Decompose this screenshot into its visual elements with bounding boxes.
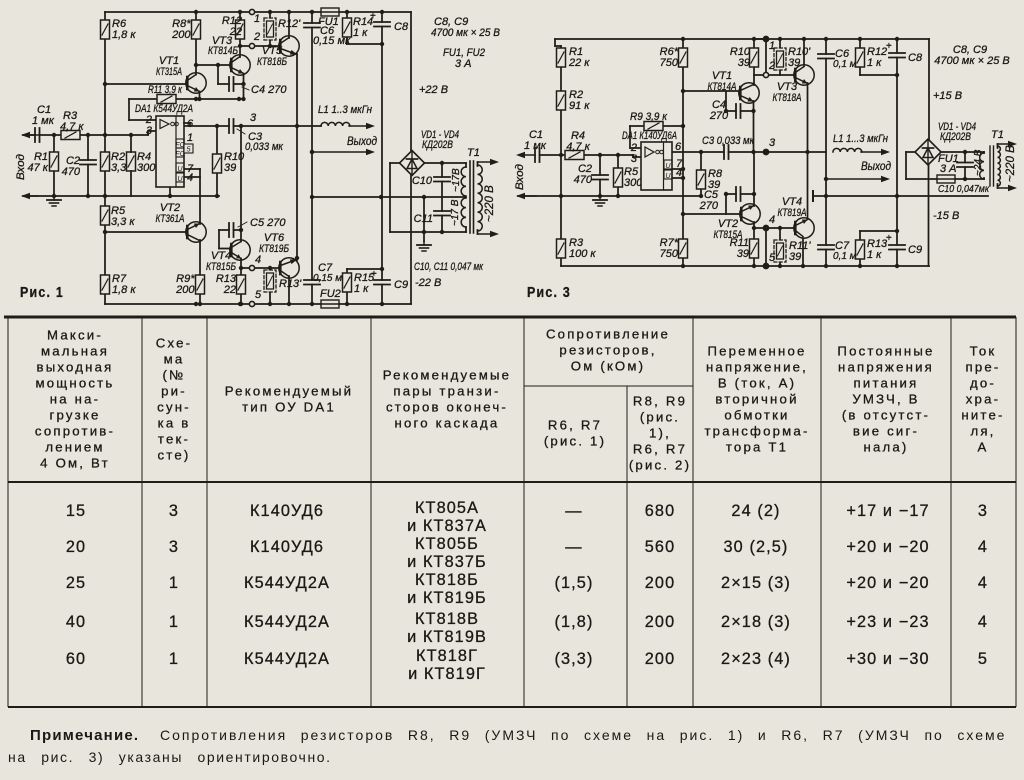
svg-text:4 Ом, Вт: 4 Ом, Вт [40, 456, 110, 471]
wire DA1 bottom stub (fig.1) [169, 187, 171, 196]
wire R11` top stub (fig.3) [779, 228, 781, 240]
junction [198, 302, 202, 306]
svg-text:4,7 к: 4,7 к [60, 121, 84, 133]
junction [801, 264, 805, 268]
wire bridge AC bottom (fig.1) [390, 231, 466, 233]
wire to C5 (fig.3) [726, 193, 736, 195]
svg-text:УМЗЧ, В: УМЗЧ, В [852, 392, 919, 407]
capacitor C4 270 (fig.3) [736, 104, 741, 118]
svg-text:ля,: ля, [970, 424, 995, 439]
svg-text:5: 5 [255, 289, 262, 301]
T1 secondary winding lower ~17V [461, 198, 466, 227]
transistor VT2 KT361A [186, 222, 206, 242]
wire bridge AC left (fig.1) [390, 162, 400, 164]
svg-text:сун-: сун- [157, 400, 191, 415]
T1 primary lead bottom (fig.3) [998, 185, 1018, 191]
junction [310, 195, 314, 199]
junction [699, 150, 703, 154]
wire rail to R12 (fig.3) [859, 39, 861, 48]
wire R13 to C9 column (fig.3) [860, 230, 897, 232]
bridge rectifier VD1-VD4 (fig.1) [400, 151, 425, 176]
input arrow bottom (fig.1) [21, 193, 38, 199]
svg-text:и КТ837Б: и КТ837Б [407, 553, 487, 571]
svg-text:трансформа-: трансформа- [704, 424, 809, 439]
wire DA1 output line (fig.3) [672, 151, 826, 153]
inductor L1 (fig.3) [833, 148, 862, 152]
svg-text:выходная: выходная [36, 360, 113, 375]
junction [681, 264, 685, 268]
svg-text:C9: C9 [394, 279, 408, 291]
wire C2 top (fig.3) [599, 155, 601, 175]
svg-text:+23 и −23: +23 и −23 [846, 613, 929, 631]
resistor R11 3.9k [157, 95, 176, 104]
junction [778, 226, 782, 230]
svg-text:47 к: 47 к [28, 162, 49, 174]
junction [422, 195, 426, 199]
wire VT2 emitter to R9* (fig.1) [199, 240, 201, 275]
wire VT1 emitter column (fig.3) [753, 101, 755, 152]
wire VT4 collector (fig.3) [802, 238, 804, 266]
wire [465, 163, 467, 167]
output arrow L1 (fig.1) [349, 123, 375, 129]
T1 core line2 (fig.3) [993, 146, 995, 186]
wire pin4-pin5 column (fig.3) [765, 228, 767, 266]
svg-text:-22 В: -22 В [415, 277, 441, 289]
svg-text:5: 5 [978, 650, 988, 668]
wire FU1 to secondary (fig.3) [955, 178, 984, 180]
svg-text:мощность: мощность [36, 376, 115, 391]
wire VT2 emitter to R11 (fig.3) [753, 222, 755, 239]
svg-text:20: 20 [66, 538, 86, 556]
wire bottom -22V rail (fig.1) [105, 303, 411, 305]
capacitor C10 0.047uF (fig.3) [957, 163, 973, 168]
junction [895, 264, 899, 268]
table vertical line 8 [950, 317, 952, 707]
wire R5 bottom (fig.3) [617, 187, 619, 196]
svg-text:пары транзи-: пары транзи- [393, 384, 500, 399]
svg-text:питания: питания [854, 376, 919, 391]
svg-text:напряжения: напряжения [838, 360, 934, 375]
svg-text:+22 В: +22 В [419, 84, 448, 96]
svg-text:~17 В: ~17 В [450, 199, 461, 226]
svg-text:1),: 1), [649, 426, 671, 441]
capacitor C1 1uF (fig.1) [35, 128, 40, 142]
resistor R13` (optional) [264, 270, 276, 292]
junction [103, 194, 107, 198]
resistor R13 22 [237, 275, 246, 294]
svg-text:C3 0,033 мк: C3 0,033 мк [702, 135, 755, 147]
wire VT1 base (fig.3) [683, 90, 740, 92]
junction [268, 10, 272, 14]
C4 pointer [242, 87, 249, 90]
wire C5 elbow (fig.1) [218, 230, 220, 249]
wire R11` bottom stub (fig.3) [779, 258, 781, 266]
junction [598, 153, 602, 157]
junction [380, 42, 384, 46]
wire AC drop (fig.3) [905, 152, 907, 179]
junction [238, 44, 242, 48]
capacitor C6 0.15uF [304, 23, 320, 28]
svg-text:+17 и −17: +17 и −17 [846, 502, 929, 520]
wire rail jog (fig.3) [554, 39, 556, 46]
wire DA1 pin4 stub (fig.1) [184, 176, 200, 178]
transformer T1 (fig.3) [980, 141, 1017, 191]
svg-text:4: 4 [978, 538, 988, 556]
junction [268, 44, 272, 48]
wire [477, 162, 479, 166]
wire C10/C11 column (fig.1) [441, 163, 443, 232]
svg-text:(рис.: (рис. [640, 410, 680, 425]
svg-text:К544УД2А: К544УД2А [244, 613, 330, 631]
wire [477, 230, 479, 234]
output arrow common (fig.1) [312, 149, 375, 155]
table header separator [8, 481, 1016, 483]
table vertical line 3 [370, 317, 372, 707]
wire C5 to VT2 (fig.3) [741, 193, 755, 195]
svg-text:Рис. 1: Рис. 1 [20, 284, 64, 301]
svg-text:3 А: 3 А [940, 163, 957, 175]
transistor VT2 KT815A (fig.3) [740, 204, 760, 224]
svg-text:—: — [565, 538, 582, 556]
svg-text:Рекомендуемый: Рекомендуемый [225, 384, 353, 399]
svg-text:R6, R7: R6, R7 [633, 442, 687, 457]
svg-text:напряжение,: напряжение, [706, 360, 808, 375]
svg-text:(1,5): (1,5) [555, 574, 594, 592]
T1 core line 2 [473, 161, 475, 233]
svg-text:~17В: ~17В [451, 168, 462, 192]
svg-text:1 к: 1 к [353, 27, 368, 39]
wire R15 branch (fig.1) [346, 269, 348, 304]
pin terminal 5 (fig.3) [763, 263, 768, 268]
junction [215, 124, 219, 128]
resistor R2 3.3k [101, 152, 110, 171]
junction [238, 10, 242, 14]
svg-text:обмотки: обмотки [724, 408, 789, 423]
wire VT6 base (fig.1) [241, 267, 280, 269]
wire C6/C7 bypass column (fig.1) [311, 12, 313, 304]
junction [379, 195, 383, 199]
capacitor C6 0.1uF (fig.3) [818, 54, 834, 59]
svg-text:470: 470 [62, 166, 81, 178]
wire rail to R10 (fig.3) [753, 39, 755, 48]
wire R10` bottom stub (fig.3) [779, 66, 781, 75]
T1 secondary winding ~24V (fig.3) [980, 153, 984, 179]
junction [824, 264, 828, 268]
wire R12` top stub (fig.1) [269, 12, 271, 18]
svg-text:C5 270: C5 270 [250, 217, 286, 229]
wire top +22V rail (fig.1) [105, 11, 411, 13]
svg-text:R9 3,9 к: R9 3,9 к [630, 111, 668, 123]
junction [103, 82, 107, 86]
junction [681, 167, 685, 171]
wire C2 bottom (fig.3) [599, 179, 601, 196]
svg-text:0,033 мк: 0,033 мк [245, 141, 284, 153]
wire jog to R1 [555, 45, 561, 47]
svg-text:C8: C8 [908, 52, 923, 64]
wire [983, 178, 985, 179]
wire C5 riser (fig.3) [725, 194, 727, 214]
wire top +15V rail (fig.3) [555, 38, 929, 40]
svg-text:на на-: на на- [50, 392, 101, 407]
svg-text:3: 3 [146, 125, 153, 137]
svg-text:3: 3 [169, 502, 179, 520]
capacitor C9 4700uF (fig.3) [889, 245, 905, 250]
svg-text:хра-: хра- [966, 392, 1000, 407]
wire lower common rail (fig.1) [23, 195, 219, 197]
junction [724, 192, 728, 196]
wire VT4 collector column (fig.1) [240, 126, 242, 242]
wire R13 top (fig.3) [859, 231, 861, 240]
wire R13 bottom (fig.3) [859, 258, 861, 266]
table vertical line 6 [692, 317, 694, 707]
resistor R6* 750 [679, 48, 688, 67]
junction [778, 37, 782, 41]
wire R11 to rail (fig.3) [753, 257, 755, 266]
resistor R11` 39 (fig.3) [774, 240, 786, 262]
svg-text:К544УД2А: К544УД2А [244, 574, 330, 592]
svg-text:Ом (кОм): Ом (кОм) [571, 359, 645, 374]
svg-text:C8: C8 [394, 21, 409, 33]
transistor VT3 KT818A (fig.3) [794, 65, 814, 85]
svg-text:C11: C11 [414, 213, 433, 225]
svg-text:200: 200 [175, 284, 195, 296]
svg-text:200: 200 [171, 29, 191, 41]
junction [752, 192, 756, 196]
svg-text:1: 1 [769, 40, 775, 52]
wire R6-R2-R5-R7 column (fig.1) [104, 12, 106, 304]
junction [764, 150, 768, 154]
junction [194, 302, 198, 306]
junction [824, 194, 828, 198]
svg-text:грузке: грузке [49, 408, 100, 423]
capacitor C3 0.033uF (fig.1) [229, 119, 234, 133]
svg-text:КТ818Б: КТ818Б [415, 571, 479, 589]
resistor R4 300 [127, 152, 136, 171]
svg-text:1 мк: 1 мк [524, 140, 547, 152]
svg-text:200: 200 [645, 613, 675, 631]
svg-text:мальная: мальная [41, 344, 109, 359]
junction [380, 267, 384, 271]
table vertical line 4 [523, 317, 525, 707]
wire C10 top (fig.3) [964, 152, 966, 163]
svg-text:R8, R9: R8, R9 [633, 394, 687, 409]
wire VT4 base (fig.3) [766, 227, 794, 229]
svg-text:ного каскада: ного каскада [395, 416, 500, 431]
junction [194, 10, 198, 14]
junction [268, 302, 272, 306]
wire DA1 pin7 stub (fig.1) [184, 168, 200, 170]
junction [216, 63, 220, 67]
svg-text:39: 39 [789, 251, 801, 263]
svg-text:и КТ819Б: и КТ819Б [407, 589, 487, 607]
wire to T1 secondary top (fig.1) [442, 162, 466, 164]
svg-text:3,3 к: 3,3 к [111, 216, 135, 228]
wire input signal line (fig.1) [23, 134, 148, 136]
svg-text:DA1 К140УД6А: DA1 К140УД6А [622, 130, 677, 142]
wire lower common line (fig.3) [518, 195, 701, 197]
junction [764, 264, 768, 268]
C5 pointer [238, 222, 247, 227]
T1 secondary winding upper ~17V [461, 167, 466, 196]
svg-text:ри-: ри- [161, 384, 187, 399]
wire VT1 base (fig.1) [105, 83, 186, 85]
wire R1 branch (fig.1) [53, 135, 55, 196]
svg-text:КТ818Г: КТ818Г [416, 647, 478, 665]
wire +rail to bridge (fig.3) [928, 39, 930, 139]
svg-text:сторов оконеч-: сторов оконеч- [386, 400, 508, 415]
resistor R8* 200 [192, 20, 201, 39]
junction [858, 37, 862, 41]
junction [310, 150, 314, 154]
ground at T1 center tap (fig.1) [417, 241, 431, 251]
wire R14 branch (fig.1) [346, 12, 348, 44]
junction [287, 302, 291, 306]
capacitor C4 270 (fig.1) [229, 77, 234, 91]
wire R4 to DA1 (fig.3) [584, 154, 633, 156]
svg-text:ма: ма [164, 352, 185, 367]
svg-text:Ток: Ток [970, 344, 997, 359]
junction [598, 194, 602, 198]
wire mid common rail (fig.3) [813, 195, 988, 197]
junction [681, 124, 685, 128]
resistor R12 22 [236, 20, 245, 39]
svg-text:24 (2): 24 (2) [731, 502, 780, 520]
svg-text:Схе-: Схе- [156, 336, 193, 351]
svg-text:6: 6 [675, 141, 682, 153]
wire C4 to VT1 (fig.3) [741, 110, 754, 112]
svg-text:25: 25 [66, 574, 86, 592]
output arrow L1 (fig.3) [861, 149, 890, 155]
wire R10` top stub (fig.3) [779, 39, 781, 48]
svg-text:L1 1...3 мкГн: L1 1...3 мкГн [833, 133, 888, 145]
table vertical line 5 [626, 386, 628, 707]
junction [194, 63, 198, 67]
junction [239, 302, 243, 306]
svg-text:тип ОУ DA1: тип ОУ DA1 [242, 400, 336, 415]
resistor R1 22k [557, 48, 566, 67]
resistor R5 3.3k [101, 206, 110, 225]
wire VT3/VT4 emitter column (fig.3) [807, 83, 809, 218]
svg-text:5: 5 [769, 252, 776, 264]
resistor R12` (optional) [264, 18, 276, 40]
svg-text:и КТ819В: и КТ819В [407, 628, 487, 646]
svg-text:470: 470 [574, 174, 593, 186]
resistor R2 91k [557, 91, 566, 110]
wire R4 bottom stub [130, 171, 132, 196]
junction [86, 194, 90, 198]
junction [895, 37, 899, 41]
junction [380, 10, 384, 14]
svg-text:сопротив-: сопротив- [35, 424, 115, 439]
pin terminal 4 (fig.3) [763, 225, 768, 230]
wire VT2 collector (fig.3) [753, 152, 755, 206]
svg-text:КТ815А: КТ815А [714, 229, 743, 241]
junction [103, 230, 107, 234]
C3 pointer [237, 129, 245, 134]
table vertical line 0 [7, 317, 9, 707]
svg-text:КТ815Б: КТ815Б [206, 261, 236, 273]
T1 primary lead bottom (fig.1) [478, 231, 500, 237]
svg-text:В (ток, А): В (ток, А) [718, 376, 796, 391]
junction [778, 264, 782, 268]
wire VT2 base (fig.1) [105, 231, 187, 233]
svg-text:нала): нала) [863, 440, 908, 455]
node 3 output [239, 124, 243, 128]
svg-text:100 к: 100 к [569, 248, 596, 260]
junction [895, 194, 899, 198]
junction [440, 230, 444, 234]
capacitor C8 4700uF (fig.3) [889, 53, 905, 58]
wire bottom -15V rail (fig.3) [561, 265, 929, 267]
wire R9* to rail (fig.1) [199, 294, 201, 304]
svg-text:+: + [370, 11, 376, 22]
table group sub-line [524, 385, 693, 387]
svg-text:4: 4 [769, 214, 775, 226]
junction [310, 10, 314, 14]
wire R12 to C8 column (fig.3) [860, 74, 897, 76]
wire input to R4 (fig.3) [536, 154, 565, 156]
resistor R14 1k [343, 18, 352, 37]
svg-text:3: 3 [250, 112, 257, 124]
resistor R9* 200 [196, 275, 205, 294]
svg-text:(в отсутст-: (в отсутст- [842, 408, 930, 423]
input arrow bottom (fig.3) [516, 193, 536, 199]
junction [52, 133, 56, 137]
junction [310, 150, 314, 154]
svg-text:C4 270: C4 270 [251, 84, 287, 96]
svg-text:(№: (№ [163, 368, 186, 383]
junction [858, 264, 862, 268]
svg-text:39: 39 [737, 248, 749, 260]
svg-text:3: 3 [631, 153, 638, 165]
svg-text:3 А: 3 А [455, 58, 472, 70]
svg-text:1: 1 [187, 132, 193, 144]
wire R6*/R7* column (fig.3) [682, 39, 684, 266]
svg-text:Постоянные: Постоянные [837, 344, 934, 359]
junction [241, 97, 245, 101]
capacitor C3 0.033uF (fig.3) [724, 145, 729, 159]
svg-text:+20 и −20: +20 и −20 [846, 574, 929, 592]
svg-text:и КТ837А: и КТ837А [407, 517, 487, 535]
svg-text:30 (2,5): 30 (2,5) [724, 538, 789, 556]
svg-text:1: 1 [254, 13, 260, 25]
wire to pin2 (fig.3) [630, 147, 641, 149]
svg-text:39: 39 [224, 162, 236, 174]
junction [616, 194, 620, 198]
svg-text:1 к: 1 к [867, 249, 882, 261]
junction [616, 153, 620, 157]
junction [241, 82, 245, 86]
resistor R5 300 [614, 168, 623, 187]
svg-text:Рис. 3: Рис. 3 [527, 284, 571, 301]
svg-text:R11 3,9 к: R11 3,9 к [148, 84, 183, 96]
junction [239, 266, 243, 270]
wire bridge AC left drop (fig.1) [389, 163, 391, 232]
svg-text:2: 2 [768, 60, 775, 72]
wire C10 bottom (fig.3) [964, 167, 966, 179]
junction [268, 266, 272, 270]
svg-text:пре-: пре- [965, 360, 1000, 375]
junction [681, 89, 685, 93]
wire [997, 144, 999, 148]
svg-text:КТ814Б: КТ814Б [208, 45, 238, 57]
wire R13` top stub (fig.1) [269, 268, 271, 270]
table top border [4, 316, 1016, 319]
wire [983, 152, 985, 153]
svg-text:Вход: Вход [514, 164, 526, 190]
wire R10 column (fig.1) [216, 126, 218, 196]
svg-text:300: 300 [137, 162, 156, 174]
